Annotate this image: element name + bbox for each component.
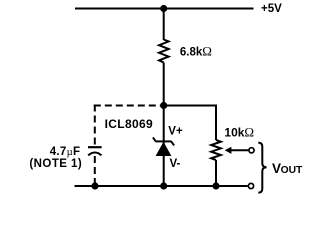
svg-text:OUT: OUT: [281, 165, 303, 176]
svg-text:V-: V-: [170, 158, 181, 170]
svg-text:4.7µF: 4.7µF: [50, 146, 81, 158]
svg-text:+5V: +5V: [261, 3, 282, 15]
svg-text:10kΩ: 10kΩ: [224, 125, 254, 140]
svg-text:(NOTE 1): (NOTE 1): [29, 158, 82, 170]
svg-text:V+: V+: [168, 125, 183, 137]
svg-text:6.8kΩ: 6.8kΩ: [180, 43, 212, 58]
svg-text:ICL8069: ICL8069: [105, 117, 153, 131]
